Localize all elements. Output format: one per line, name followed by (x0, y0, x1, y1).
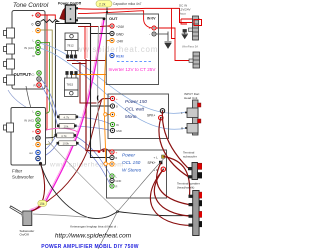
potentiometer P2 (4, 44, 15, 54)
svg-text:OUT: OUT (109, 16, 118, 21)
terminal +24V (108, 24, 125, 29)
terminal mono 0 (110, 104, 114, 108)
terminal tone 0 (36, 21, 40, 25)
wire blue between boards (8, 90, 33, 111)
svg-text:7815: 7815 (67, 83, 74, 87)
terminal mono + (110, 96, 114, 100)
wire pink parallel (30, 20, 103, 210)
terminal -24V (110, 38, 124, 43)
svg-text:+: + (32, 130, 34, 134)
svg-text:4.7k: 4.7k (64, 115, 70, 119)
tone control board (12, 11, 45, 90)
subwoofer terminal block (188, 163, 202, 180)
wire red top bus (78, 8, 192, 22)
svg-text:-: - (149, 33, 150, 37)
svg-text:Power On/Off: Power On/Off (58, 2, 82, 6)
svg-text:On/Off: On/Off (20, 233, 29, 237)
head unit terminal (185, 100, 201, 135)
wire maroon plus24 feed (78, 25, 110, 28)
terminal stereo 0 (110, 155, 114, 159)
wire black filter sweep to terminals (41, 164, 189, 219)
junction magenta start (103, 17, 106, 20)
wire maroon mono plus feed (80, 62, 110, 103)
svg-text:Power: Power (122, 153, 135, 158)
svg-text:W Stereo: W Stereo (122, 168, 142, 173)
svg-text:+: + (149, 27, 151, 31)
svg-text:+: + (116, 151, 118, 155)
svg-text:Head Unit: Head Unit (184, 96, 198, 100)
terminal filter - (36, 142, 40, 146)
dc terminal block 1 (189, 16, 202, 40)
svg-text:100k: 100k (63, 142, 70, 146)
terminals filter (24, 110, 42, 166)
potentiometer P3 (4, 59, 15, 69)
terminal stereo - (110, 162, 114, 166)
terminal tone - (36, 28, 40, 32)
terminal tone out R (37, 83, 41, 87)
wire blue resistor3 to stereo in (74, 136, 111, 177)
svg-text:IN 0V: IN 0V (147, 17, 156, 21)
wire blue resistor2 to mono gnd (75, 126, 112, 131)
svg-text:out: out (29, 151, 33, 155)
svg-text:IN (AC): IN (AC) (24, 46, 34, 50)
svg-text:+24V: +24V (116, 25, 125, 29)
wire pink filter plus branch (41, 128, 79, 132)
svg-text:SPK+: SPK+ (147, 114, 155, 118)
terminal stereo + (110, 150, 114, 154)
wire maroon mono spk2 to subwoofer term 2 (159, 118, 188, 177)
filter subwoofer board (11, 108, 46, 166)
svg-text:WirePass 5A: WirePass 5A (182, 45, 198, 49)
svg-text:7812: 7812 (67, 44, 74, 48)
dc terminal block 2 (189, 52, 200, 68)
svg-text:GND: GND (116, 33, 124, 37)
svg-text:+ L: + L (154, 156, 159, 160)
svg-text:-24V: -24V (116, 40, 124, 44)
svg-text:Keterangan lengkap bisa di lih: Keterangan lengkap bisa di lihat di : (70, 225, 118, 229)
wire green tone to filter (41, 43, 50, 114)
svg-text:Power 150: Power 150 (125, 99, 147, 104)
svg-text:15k: 15k (39, 202, 45, 206)
wire orange -24 bus (72, 41, 111, 164)
terminal mono spk1 (160, 109, 164, 113)
terminal stereo gnd (110, 178, 114, 182)
terminal tone R (36, 50, 40, 54)
terminal mono in (110, 122, 114, 126)
terminal tone out L (37, 71, 41, 75)
terminal tone L (36, 40, 40, 44)
wire red regulator feed (84, 27, 86, 60)
svg-text:10k: 10k (64, 124, 69, 128)
terminal stereo spkL (162, 155, 165, 158)
wire maroon stereo spk loops (164, 157, 190, 197)
wire black squiggle tone 0 (41, 20, 59, 139)
junction bottom (116, 210, 119, 213)
wire red inverter in (156, 9, 192, 61)
ground symbol main (165, 42, 172, 48)
svg-text:SPK+: SPK+ (148, 161, 156, 165)
svg-text:4.7k: 4.7k (61, 134, 67, 138)
terminal filter out1 (36, 150, 40, 154)
wire blue output R to resistor (41, 85, 58, 126)
terminal stereo inR (110, 184, 114, 188)
wire gray vertical (98, 26, 101, 150)
power switch S1 (60, 5, 78, 23)
svg-text:+: + (108, 25, 110, 29)
svg-text:-: - (116, 113, 117, 117)
wire maroon filter to switch (31, 164, 45, 212)
svg-text:Mono: Mono (125, 114, 137, 119)
resistor R-D 100k (57, 141, 79, 146)
wire red lower bus to inverter in (78, 11, 152, 28)
svg-text:Filter: Filter (12, 169, 23, 174)
wire rem dashed (117, 61, 152, 63)
svg-text:GND: GND (116, 179, 122, 183)
subwoofer switch S2 (10, 207, 32, 226)
wire blue filter out to resistor (41, 138, 56, 153)
terminal mono gnd (110, 128, 114, 132)
wire red tone + to switch lever (41, 15, 56, 20)
svg-text:POWER AMPLIFIER MOBIL DIY 750W: POWER AMPLIFIER MOBIL DIY 750W (41, 244, 139, 249)
potentiometer P4 (4, 75, 15, 85)
wire maroon vertical (86, 59, 110, 152)
resistor tag 15k (38, 200, 47, 206)
wire blue resistor1 to mono in (76, 117, 111, 125)
svg-text:Capacitor mika 4n7: Capacitor mika 4n7 (113, 2, 142, 6)
terminal tone out mid (37, 77, 41, 81)
mono amp box (108, 94, 169, 139)
wire blue output L to resistor (41, 79, 58, 117)
wire black gnd bus (56, 24, 111, 158)
svg-text:Accu: Accu (179, 12, 186, 16)
wire maroon mono spk to subwoofer term 1 (162, 111, 188, 168)
resistor R-C 4.7k (55, 133, 77, 138)
speaker terminal block (189, 191, 203, 236)
svg-text:Inverter 12V to CT 25V: Inverter 12V to CT 25V (109, 67, 157, 72)
inverter box U-INV (106, 14, 158, 85)
terminal REM (110, 53, 124, 58)
svg-text:IN (AC): IN (AC) (24, 119, 34, 123)
wire blue head unit R to tone (41, 49, 186, 130)
terminal mono - (110, 112, 114, 116)
capacitor lead top (106, 7, 108, 14)
terminal stereo inL (110, 174, 114, 178)
svg-text:R: R (116, 185, 118, 189)
svg-text:+: + (116, 97, 118, 101)
svg-text:http://www.spiderheat.com: http://www.spiderheat.com (55, 233, 132, 240)
wire magenta main (31, 20, 104, 211)
wire thin gray radiating (98, 159, 164, 249)
wire maroon descent to switch (34, 100, 102, 211)
svg-text:OCL 150: OCL 150 (122, 160, 141, 165)
svg-text:-: - (33, 143, 34, 147)
wire maroon regulator bus (67, 61, 106, 64)
potentiometer P1 (4, 28, 15, 38)
terminal filter IN (36, 118, 40, 122)
svg-text:(AC): (AC) (29, 73, 34, 77)
terminal IN - (149, 32, 156, 37)
terminal stereo spkC (159, 161, 162, 164)
terminal filter out2 (36, 156, 40, 160)
resistor R-A 4.7k (57, 114, 78, 119)
svg-text:IN: IN (116, 123, 119, 127)
junction dots left of amps (96, 96, 99, 101)
terminal tone + (36, 13, 40, 17)
svg-text:2.2k: 2.2k (99, 2, 106, 6)
svg-text:www.spiderheat.com: www.spiderheat.com (69, 45, 158, 54)
wire black switch lower (77, 17, 104, 19)
svg-text:GND: GND (116, 129, 122, 133)
svg-text:(head/satelit): (head/satelit) (177, 186, 194, 190)
svg-text:REM: REM (116, 55, 124, 59)
terminal IN + (149, 26, 157, 31)
terminal tone IN (36, 45, 40, 49)
terminal filter + (36, 129, 40, 133)
stereo amp box (107, 150, 167, 198)
wire olive tone to filter (41, 30, 53, 145)
svg-text:subwoofer: subwoofer (183, 155, 197, 159)
wire black inverter in gnd (156, 32, 168, 42)
resistor R-B 10k (57, 123, 77, 128)
svg-text:0: 0 (32, 137, 34, 141)
wire blue filter out2 to resistor (41, 144, 58, 158)
wire gray switch join (33, 214, 88, 218)
terminal filter R (36, 123, 40, 127)
wire dark between boards (26, 86, 32, 110)
svg-text:OCL watt: OCL watt (125, 107, 145, 112)
svg-text:0: 0 (32, 23, 34, 27)
wire blue resistor4 to stereo in2 (77, 143, 112, 186)
terminal GND (110, 31, 124, 36)
junction filter corner (39, 162, 42, 165)
wire red dc block loop (181, 19, 200, 24)
terminal mono spk2 (159, 116, 163, 120)
terminal stereo spkR (161, 167, 165, 171)
resistor tag 2.2k (96, 1, 112, 8)
ground symbol dc (182, 30, 189, 39)
regulator 7815 (65, 71, 79, 97)
terminal filter 0 (36, 136, 40, 140)
wire blue head unit L to tone (41, 44, 186, 114)
potentiometer filter (4, 123, 14, 132)
svg-text:Subwoofer: Subwoofer (12, 175, 34, 180)
svg-text:-: - (116, 163, 117, 167)
terminals tone control (14, 13, 42, 88)
svg-text:Tone Control: Tone Control (13, 2, 49, 9)
terminal filter L (36, 111, 40, 115)
regulator 7812 (65, 33, 78, 58)
wire red + tone to filter (41, 15, 48, 132)
